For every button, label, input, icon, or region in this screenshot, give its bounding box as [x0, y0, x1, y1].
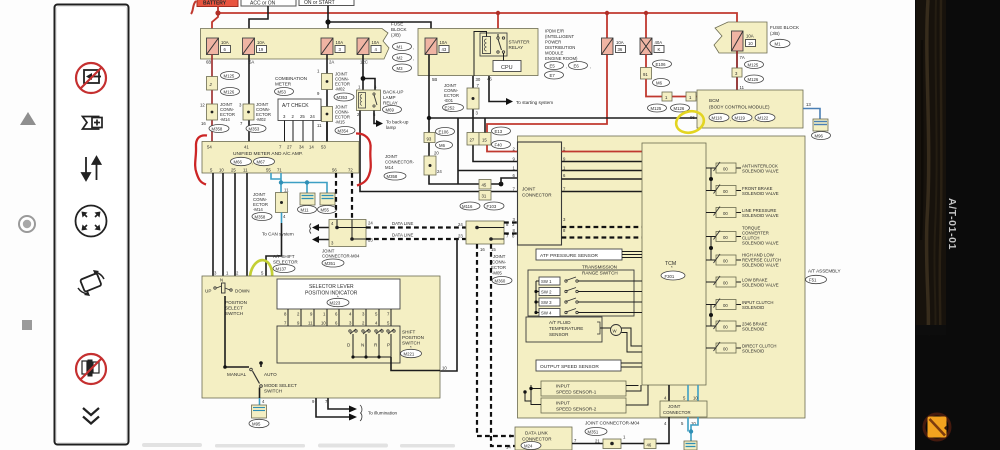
- svg-text:M96: M96: [815, 134, 824, 139]
- svg-text:34: 34: [299, 145, 304, 150]
- fuse 10A 6: [207, 38, 231, 55]
- svg-text:F103: F103: [487, 204, 497, 209]
- blue wire below M14 joint connector: [281, 213, 283, 224]
- svg-text:(J/B): (J/B): [391, 33, 401, 38]
- svg-text:E252: E252: [445, 106, 456, 111]
- svg-text:ACC or ON: ACC or ON: [250, 1, 276, 7]
- svg-text:DATA LINK: DATA LINK: [525, 431, 549, 436]
- connector boxes 45 and 31 with line A: [479, 180, 491, 190]
- svg-text:00: 00: [723, 189, 728, 194]
- left margin nav triangle: [20, 112, 36, 125]
- svg-text:10A: 10A: [336, 40, 344, 45]
- junction dot on ground rail: [427, 116, 431, 120]
- svg-text:M221: M221: [404, 352, 415, 357]
- svg-text:N: N: [220, 278, 223, 283]
- back-up lamp relay box: [357, 90, 381, 111]
- svg-text:ATF PRESSURE SENSOR: ATF PRESSURE SENSOR: [540, 253, 599, 259]
- data line 2 dashed: [366, 238, 466, 240]
- ovals E5 E6 E7: [545, 62, 564, 70]
- svg-text:To illumination: To illumination: [368, 411, 398, 416]
- input speed sensor-1 box: [541, 381, 626, 396]
- svg-text:MODULE: MODULE: [545, 51, 564, 56]
- svg-text:M118: M118: [712, 116, 723, 121]
- black wires joint connector to TCM: [562, 161, 643, 163]
- svg-text:SOLENOID: SOLENOID: [742, 327, 764, 332]
- data link connector box: [515, 427, 572, 450]
- fuse 10A 43: [425, 38, 449, 55]
- red branch to starter relay: [497, 13, 499, 34]
- joint connector M14 box: [207, 104, 218, 120]
- svg-text:5A: 5A: [249, 60, 254, 65]
- svg-text:25: 25: [231, 168, 236, 173]
- svg-text:A/T SHIFT: A/T SHIFT: [273, 254, 295, 259]
- toolbar panel: [55, 5, 129, 445]
- connector box 2: [207, 77, 218, 91]
- svg-text:SWITCH: SWITCH: [264, 389, 282, 394]
- svg-text:M1: M1: [775, 42, 782, 47]
- svg-text:TEMPERATURE: TEMPERATURE: [549, 326, 583, 331]
- direct clutch solenoid: [706, 342, 777, 354]
- svg-text:M351: M351: [588, 430, 599, 435]
- fuse 43 wire chain down: [429, 55, 501, 185]
- svg-text:11: 11: [243, 168, 248, 173]
- svg-text:SW 3: SW 3: [541, 300, 552, 305]
- joint connector M04 box: [329, 220, 366, 247]
- svg-text:10A: 10A: [221, 40, 229, 45]
- svg-text:00: 00: [723, 167, 728, 172]
- svg-text:,: ,: [413, 56, 414, 61]
- transmission range switch box: [528, 270, 634, 316]
- ON/START wire to fuse 3 and fuse 43: [328, 6, 431, 39]
- svg-text:E6: E6: [574, 64, 580, 69]
- relay contacts: [497, 37, 499, 39]
- blue CAN wires from pins 55/71: [271, 173, 327, 193]
- torque converter clutch solenoid valve: [706, 226, 779, 246]
- svg-text:INPUT: INPUT: [556, 401, 570, 406]
- fuse block J/B box (top right, torn edge): [714, 22, 767, 53]
- fuse 10A 10: [732, 31, 756, 51]
- svg-text:RANGE SWITCH: RANGE SWITCH: [582, 271, 618, 276]
- svg-text:53: 53: [321, 145, 326, 150]
- connector ovals M1 M2 M3: [393, 43, 412, 51]
- svg-text:CONNECTOR-M04: CONNECTOR-M04: [322, 254, 360, 259]
- icon: fit-to-screen circle with four arrows: [76, 206, 107, 237]
- input sensor left bus with dots: [531, 385, 541, 405]
- high and low reverse clutch solenoid valve: [706, 253, 781, 268]
- svg-text:SOLENOID VALVE: SOLENOID VALVE: [742, 213, 779, 218]
- black wire fuse19 to unified meter pin 41: [248, 55, 250, 143]
- svg-text:16: 16: [201, 121, 206, 126]
- svg-text:LAMP: LAMP: [383, 95, 396, 100]
- svg-text:M66: M66: [234, 160, 243, 165]
- A/T device box (position select / indicator / shift switch): [202, 276, 440, 398]
- svg-text:11: 11: [740, 85, 745, 90]
- red freehand bracket right: [356, 133, 371, 185]
- svg-text:71: 71: [277, 168, 282, 173]
- svg-text:E7: E7: [550, 73, 556, 78]
- fuse 10A 19: [243, 38, 267, 55]
- svg-text:24: 24: [437, 169, 442, 174]
- svg-text:93: 93: [427, 137, 432, 142]
- svg-text:14: 14: [309, 145, 314, 150]
- svg-text:M126: M126: [224, 90, 235, 95]
- selector lever position indicator box: [277, 279, 400, 309]
- svg-text:10: 10: [693, 396, 698, 401]
- A/T check wires to unified meter: [285, 121, 314, 142]
- faint scan artifacts bottom: [142, 443, 455, 448]
- svg-text:UP: UP: [205, 289, 211, 294]
- svg-text:M95: M95: [252, 422, 261, 427]
- svg-text:SOLENOID VALVE: SOLENOID VALVE: [742, 263, 779, 268]
- svg-text:00: 00: [723, 325, 728, 330]
- svg-text:MODE SELECT: MODE SELECT: [264, 383, 297, 388]
- svg-text:F51: F51: [809, 278, 817, 283]
- SW4 switch: [536, 309, 642, 317]
- A/T assembly outer box: [518, 136, 806, 418]
- joint connector M05 box: [466, 221, 504, 244]
- SW3 switch: [536, 298, 642, 306]
- svg-text:-M14: -M14: [220, 117, 230, 122]
- icon: sort up-down arrows: [82, 157, 101, 180]
- svg-text:CONNECTOR: CONNECTOR: [522, 193, 552, 198]
- fuse 36 red wire with jog to joint connector pin 2: [487, 55, 607, 152]
- svg-text:-M05: -M05: [492, 271, 502, 276]
- svg-text:JOINT CONNECTOR-M04: JOINT CONNECTOR-M04: [585, 421, 640, 426]
- svg-text:E106: E106: [439, 130, 450, 135]
- starter relay inner box: [480, 33, 507, 56]
- svg-text:M3: M3: [397, 66, 404, 71]
- SW2 switch: [536, 288, 642, 296]
- to CAN system arrows: [317, 228, 329, 240]
- svg-text:TRANSMISSION: TRANSMISSION: [582, 265, 617, 270]
- dashed wires M05 down to data link connector: [477, 244, 515, 436]
- svg-text:E106: E106: [656, 62, 667, 67]
- svg-text:SW 1: SW 1: [541, 279, 552, 284]
- icon: no-screenshot (box with arrow in red prohibition circle): [76, 63, 106, 93]
- svg-text:46: 46: [647, 443, 652, 448]
- svg-text:91: 91: [643, 72, 648, 77]
- svg-text:SOLENOID VALVE: SOLENOID VALVE: [742, 191, 779, 196]
- svg-text:11: 11: [284, 188, 289, 193]
- front brake solenoid valve: [706, 185, 779, 197]
- svg-text:JOINT: JOINT: [668, 404, 681, 409]
- svg-text:JOINT: JOINT: [493, 254, 506, 259]
- svg-text:To starting system: To starting system: [516, 100, 553, 105]
- svg-text:,: ,: [413, 45, 414, 50]
- svg-text:30: 30: [476, 77, 481, 82]
- icon: no-page (book in red prohibition circle): [76, 354, 106, 384]
- svg-text:BACK-UP: BACK-UP: [383, 90, 403, 95]
- svg-text:15: 15: [482, 138, 487, 143]
- svg-text:M358: M358: [255, 215, 266, 220]
- svg-text:M358: M358: [387, 174, 398, 179]
- svg-text:SW 4: SW 4: [541, 311, 552, 316]
- svg-text:M11: M11: [301, 208, 310, 213]
- left margin radio circle: [19, 216, 35, 232]
- joint connector inner box: [518, 142, 562, 245]
- svg-text:RELAY: RELAY: [509, 45, 524, 50]
- svg-text:M119: M119: [735, 116, 746, 121]
- black wire fuse4 to back-up lamp relay: [363, 55, 375, 91]
- svg-text:M116: M116: [462, 204, 473, 209]
- ON or START supply box: [299, 0, 354, 6]
- svg-text:SWITCH: SWITCH: [225, 311, 243, 316]
- svg-text:BCM: BCM: [709, 98, 719, 103]
- svg-text:M351: M351: [325, 261, 336, 266]
- fuse 36 symbol: [602, 38, 614, 55]
- left margin square marker: [22, 320, 32, 330]
- CAN gateway connector M11: [300, 193, 315, 205]
- svg-text:55: 55: [266, 168, 271, 173]
- svg-text:M6: M6: [656, 81, 663, 86]
- SW bus vertical: [535, 281, 537, 313]
- red rail junction dots: [215, 10, 648, 15]
- green highlight circle on selector pin 5: [248, 259, 275, 296]
- svg-text:10A: 10A: [440, 40, 448, 45]
- svg-text:RELAY: RELAY: [383, 101, 398, 106]
- svg-text:M354: M354: [338, 129, 349, 134]
- joint connector M15 box: [322, 107, 333, 122]
- svg-text:M360: M360: [495, 279, 506, 284]
- icon: add-note flag with plus: [83, 117, 103, 130]
- svg-text:,: ,: [252, 160, 253, 165]
- svg-text:POWER: POWER: [545, 40, 561, 45]
- relay contact to CPU wire: [498, 34, 504, 61]
- wire fuse10 down to BCM pin 11: [736, 51, 738, 90]
- svg-text:SOLENOID VALVE: SOLENOID VALVE: [742, 169, 779, 174]
- svg-text:A/T FLUID: A/T FLUID: [549, 320, 571, 325]
- svg-text:UNIFIED METER AND A/C AMP.: UNIFIED METER AND A/C AMP.: [233, 151, 303, 157]
- svg-text:13: 13: [806, 102, 811, 107]
- main battery red rail: [218, 6, 737, 31]
- svg-text:(BODY CONTROL MODULE): (BODY CONTROL MODULE): [709, 105, 770, 110]
- svg-text:M53: M53: [278, 90, 287, 95]
- battery supply box: [197, 0, 238, 7]
- svg-text:27: 27: [287, 145, 292, 150]
- svg-text:A/T-01-01: A/T-01-01: [946, 198, 958, 250]
- svg-text:SENSOR: SENSOR: [549, 332, 569, 337]
- svg-text:M24: M24: [524, 444, 533, 449]
- svg-text:SPEED SENSOR-1: SPEED SENSOR-1: [556, 390, 597, 395]
- red freehand tick near battery: [191, 1, 196, 14]
- red branch to fuse 36: [606, 13, 608, 38]
- svg-text:-M02: -M02: [335, 87, 345, 92]
- svg-text:21: 21: [595, 439, 600, 444]
- svg-text:N: N: [361, 343, 364, 348]
- svg-text:CONNECTOR: CONNECTOR: [663, 410, 691, 415]
- svg-text:23: 23: [458, 234, 463, 239]
- fusible link K wire to BCM via connectors: [646, 55, 697, 97]
- ATF pressure sensor box: [536, 249, 622, 260]
- ovals M125 M126: [221, 72, 240, 80]
- fusible link K symbol: [640, 38, 664, 55]
- wire to A/T shift selector pin 5: [266, 223, 282, 279]
- red branch to fusible link K: [645, 13, 647, 38]
- svg-text:IPDM E/R: IPDM E/R: [545, 29, 564, 34]
- svg-text:STARTER: STARTER: [509, 40, 531, 45]
- svg-text:CONN-: CONN-: [492, 260, 507, 265]
- svg-text:POSITION INDICATOR: POSITION INDICATOR: [305, 291, 358, 297]
- svg-text:5B: 5B: [432, 77, 437, 82]
- svg-text:METER: METER: [275, 82, 292, 87]
- orange app icon bottom right: [924, 414, 950, 440]
- svg-text:,: ,: [566, 64, 567, 69]
- svg-text:00: 00: [723, 235, 728, 240]
- svg-text:10: 10: [321, 321, 326, 326]
- svg-text:,: ,: [730, 117, 731, 122]
- svg-text:FUSE: FUSE: [391, 22, 403, 27]
- svg-text:SELECTOR: SELECTOR: [273, 260, 298, 265]
- svg-text:SELECT: SELECT: [225, 306, 243, 311]
- svg-text:M69: M69: [386, 108, 395, 113]
- svg-text:12C: 12C: [360, 60, 368, 65]
- svg-text:K: K: [658, 47, 661, 52]
- svg-text:2A: 2A: [329, 60, 334, 65]
- svg-text:E13: E13: [495, 129, 503, 134]
- svg-text:10A: 10A: [257, 40, 265, 45]
- A/T check box: [278, 99, 321, 121]
- svg-text:BATTERY: BATTERY: [203, 1, 227, 7]
- fuse block J/B box 1: [201, 29, 390, 60]
- SW1 switch: [536, 277, 642, 285]
- joint connector E01 box: [473, 76, 518, 162]
- D N R P switches: [347, 329, 395, 359]
- svg-text:M55: M55: [321, 208, 330, 213]
- svg-text:11: 11: [317, 123, 322, 128]
- svg-text:-M15: -M15: [335, 120, 345, 125]
- svg-text:M126: M126: [674, 106, 685, 111]
- BCM box: [697, 90, 803, 128]
- wires unified meter pins 5/10/25 down to position select switch: [213, 173, 235, 284]
- svg-text:SPEED SENSOR-2: SPEED SENSOR-2: [556, 407, 597, 412]
- svg-text:A/T ASSEMBLY: A/T ASSEMBLY: [808, 269, 841, 274]
- svg-text:M358: M358: [212, 127, 223, 132]
- svg-text:lamp: lamp: [386, 125, 396, 130]
- low brake solenoid valve: [706, 276, 779, 288]
- svg-text:,: ,: [590, 64, 591, 69]
- svg-text:45: 45: [482, 183, 487, 188]
- data line 1 dashed: [366, 226, 466, 228]
- A/T fluid temperature sensor: [526, 317, 602, 342]
- wire JC-M15 to unified meter pin 53: [326, 122, 328, 142]
- svg-text:SHIFT: SHIFT: [402, 330, 415, 335]
- output speed sensor box: [536, 360, 621, 371]
- svg-text:SW 2: SW 2: [541, 290, 552, 295]
- dashed shield wires pins 56/72: [335, 173, 337, 220]
- svg-text:-E01: -E01: [444, 98, 454, 103]
- svg-text:M67: M67: [257, 160, 266, 165]
- svg-text:ENGINE ROOM): ENGINE ROOM): [545, 56, 578, 61]
- relay coil symbol: [483, 37, 491, 54]
- ACC wire to fuse 19: [249, 6, 268, 38]
- svg-text:M14: M14: [385, 165, 394, 170]
- wire unified meter pin 11 down: [246, 173, 248, 276]
- svg-text:COMBINATION: COMBINATION: [275, 76, 307, 81]
- svg-text:M353: M353: [337, 95, 348, 100]
- input clutch solenoid: [706, 299, 773, 311]
- svg-text:19: 19: [259, 47, 264, 52]
- svg-text:M125: M125: [748, 63, 759, 68]
- svg-text:11: 11: [308, 321, 313, 326]
- svg-text:CONNECTOR-: CONNECTOR-: [385, 160, 415, 165]
- svg-text:31: 31: [482, 194, 487, 199]
- svg-text:DISTRIBUTION: DISTRIBUTION: [545, 45, 575, 50]
- svg-text:To CAN system: To CAN system: [262, 232, 294, 237]
- svg-text:,: ,: [753, 117, 754, 122]
- svg-text:F301: F301: [665, 274, 675, 279]
- CPU box: [493, 61, 521, 72]
- svg-text:M223: M223: [330, 301, 341, 306]
- 2346 brake solenoid: [706, 320, 767, 332]
- fuse 10A 4: [357, 38, 381, 55]
- svg-text:CONNECTOR: CONNECTOR: [522, 437, 552, 442]
- svg-text:-M02: -M02: [256, 117, 266, 122]
- svg-text:F40: F40: [495, 143, 503, 148]
- svg-text:00: 00: [723, 259, 728, 264]
- svg-text:SELECTOR LEVER: SELECTOR LEVER: [309, 284, 354, 290]
- svg-text:24: 24: [458, 222, 463, 227]
- svg-text:MANUAL: MANUAL: [227, 372, 247, 377]
- svg-text:M125: M125: [224, 74, 235, 79]
- wire into joint connector pin 1: [458, 170, 518, 172]
- red wire fuse6 to unified meter pin 54: [211, 55, 213, 143]
- connector boxes 27 and 15: [467, 133, 479, 146]
- unified meter and a/c amp box: [202, 142, 359, 174]
- svg-text:BLOCK: BLOCK: [391, 27, 408, 32]
- svg-text:20: 20: [434, 151, 439, 156]
- icon: collapse double chevron: [83, 408, 99, 424]
- svg-text:M2: M2: [397, 56, 404, 61]
- svg-text:27: 27: [470, 138, 475, 143]
- svg-text:M1: M1: [397, 45, 404, 50]
- svg-text:(INTELLIGENT: (INTELLIGENT: [545, 34, 575, 39]
- yellow highlight circle on BCM pin 96: [674, 108, 706, 135]
- svg-text:JOINT: JOINT: [522, 187, 535, 192]
- ovals E13 F40: [492, 127, 511, 135]
- svg-text:AUTO: AUTO: [264, 372, 277, 377]
- svg-text:SOLENOID VALVE: SOLENOID VALVE: [742, 283, 779, 288]
- svg-text:SOLENOID VALVE: SOLENOID VALVE: [742, 241, 779, 246]
- svg-text:43: 43: [442, 47, 447, 52]
- input speed sensor-2 box: [541, 398, 626, 413]
- solid wire from data line down to selector pin 10: [440, 239, 457, 371]
- svg-text:00: 00: [723, 281, 728, 286]
- svg-text:DATA LINE: DATA LINE: [392, 221, 413, 226]
- svg-text:ECTOR: ECTOR: [491, 265, 506, 270]
- svg-text:SOLENOID: SOLENOID: [742, 349, 764, 354]
- svg-text:-M14: -M14: [253, 207, 263, 212]
- TCM bottom joint connector: [668, 385, 670, 401]
- dashed wires M05 to A/T joint connector pins 3/8: [504, 223, 518, 234]
- svg-text:INPUT: INPUT: [556, 384, 570, 389]
- svg-text:M126: M126: [748, 77, 759, 82]
- relay pin 5 wire to back-up lamp: [374, 111, 378, 124]
- icon: rotate device: [78, 270, 104, 296]
- svg-text:SOLENOID: SOLENOID: [742, 305, 764, 310]
- solenoid bus verticals with junction dots: [710, 168, 712, 326]
- svg-text:ON or START: ON or START: [304, 0, 335, 6]
- pin 10 wire out of box: [391, 357, 440, 371]
- svg-text:24: 24: [368, 221, 373, 226]
- svg-text:M125: M125: [651, 106, 662, 111]
- svg-text:41: 41: [244, 145, 249, 150]
- battery feed to fuse 6: [212, 13, 218, 38]
- svg-text:DATA LINE: DATA LINE: [392, 233, 413, 238]
- svg-text:M353: M353: [249, 127, 260, 132]
- joint connector M02 box (mid): [322, 74, 333, 90]
- CAN gateway connector M55: [320, 193, 335, 205]
- shift position switch inner box: [277, 326, 400, 363]
